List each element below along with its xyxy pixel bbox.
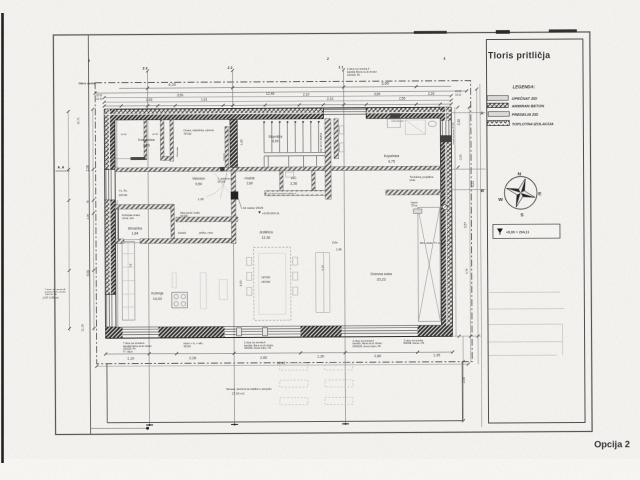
elevation box (493, 224, 560, 238)
door label steklena stena (218, 178, 233, 184)
right dim ticks (456, 88, 480, 423)
vetrolov door swing (207, 171, 228, 198)
bottom note blob 3 (244, 341, 274, 350)
right axis line corridor (452, 168, 486, 170)
table size labels (261, 276, 271, 284)
outer frame (53, 32, 592, 435)
corridor top wall (115, 166, 441, 172)
scanner edge black bar (1, 13, 4, 463)
right wall pier (440, 135, 451, 142)
tv wardrobe with X (418, 207, 441, 321)
bottom wall hatch block 3 (417, 325, 452, 336)
right dimension chain 5 (480, 84, 482, 427)
lobby partition 2 (170, 120, 174, 162)
section line top ticks (146, 68, 345, 72)
bottom wall window 1 (123, 329, 159, 335)
sofa (316, 253, 330, 313)
terrace label (226, 387, 272, 396)
shramba door (124, 240, 140, 243)
right dimension chain 2 (462, 336, 464, 420)
top dimension ticks (94, 85, 469, 108)
fireplace (413, 209, 422, 214)
right dimension chain 1 (455, 107, 456, 336)
corridor step wall (171, 204, 175, 243)
right axis line A (451, 112, 485, 114)
kitchen faint furniture (172, 273, 227, 309)
left wall edges (104, 109, 116, 338)
top wall insulation right part (366, 107, 451, 112)
bath duct wall (334, 119, 339, 159)
kotlovnica radiator (131, 157, 146, 160)
bottom note blob 4 (353, 339, 383, 348)
right wall edges (440, 107, 452, 336)
roof outline dashed (95, 81, 472, 364)
top-right note text (347, 68, 377, 77)
bottom wall corner block (105, 327, 122, 338)
stairs (264, 121, 325, 168)
section line 2-2 (227, 66, 238, 426)
top dimension line row 1 (119, 80, 451, 88)
bottom dimension ticks (104, 351, 454, 356)
right axis line B (452, 189, 486, 191)
left dim ticks (67, 108, 96, 330)
bottom note blob 5 (404, 339, 425, 345)
left wall upper segment (104, 109, 109, 169)
bottom wall hatch block 2 (300, 326, 341, 337)
bath partition (325, 119, 331, 199)
bottom wall hatch block 1 (158, 327, 224, 338)
right wall door (442, 121, 449, 136)
ogasilo partition (225, 127, 229, 168)
pergola posts (280, 363, 353, 405)
left note blob (45, 288, 66, 296)
dining table (247, 247, 298, 320)
top wall lintel blob (390, 112, 400, 118)
room label shramba (128, 227, 142, 236)
bottom dim numbers (127, 353, 440, 360)
corridor bottom wall left (115, 204, 174, 209)
label ys rc (119, 189, 128, 198)
top dimension line row 3 (104, 92, 451, 98)
bottom wall line extension (453, 335, 482, 337)
right dimension chain 3 (469, 107, 470, 361)
hodnik wall segment 1 (115, 239, 124, 244)
room label stopnisce (268, 135, 282, 144)
bottom dimension line (106, 352, 453, 354)
terrace right edge (461, 362, 463, 421)
fold line (88, 35, 90, 434)
room label jedilnica (259, 230, 273, 240)
frame smudge 3 (549, 29, 577, 32)
room label omara (183, 129, 214, 136)
legend row 1 opečnat zid (487, 96, 537, 102)
room label kuhinja (151, 291, 163, 301)
right dimension chain 4 (477, 89, 479, 364)
stair wall (230, 119, 238, 167)
wall strip separators (104, 107, 452, 338)
label miza pomik (180, 213, 200, 218)
left lower reference line (91, 427, 150, 430)
left wall window 2 (105, 294, 116, 327)
legend row 3 predelni zid (488, 112, 538, 118)
chimney circle (442, 205, 447, 210)
label kamin (411, 201, 418, 207)
wc fixture (286, 172, 294, 177)
label zofa (332, 240, 342, 251)
bath bottom wall (386, 190, 441, 195)
terrace bottom edge (107, 421, 462, 423)
room label hodnik (245, 176, 255, 185)
room label kotlovnica (138, 138, 154, 148)
stove (172, 292, 188, 308)
bottom wall terrace door (225, 328, 301, 336)
compass rose (498, 171, 542, 218)
left dimension chain (68, 111, 69, 331)
title block box (486, 39, 585, 423)
left wall mid segment (105, 200, 110, 294)
wc bottom wall (265, 190, 330, 195)
bath fixtures (339, 119, 436, 152)
ghost table lines in title block (488, 292, 564, 355)
top wall brick right part (366, 112, 451, 119)
top wall brick left part (104, 113, 323, 120)
left wall inner face (117, 120, 118, 327)
room label kopalnica (384, 154, 399, 164)
top dimension line row 2 (95, 90, 467, 101)
glass door block (220, 167, 225, 171)
corridor bottom wall mid (176, 217, 238, 222)
partition below glass wall (231, 171, 236, 244)
bottom wall window 2 (342, 328, 418, 334)
lobby partition foot (161, 156, 174, 160)
wc partition right (312, 171, 316, 191)
left wall window 1 (105, 169, 116, 200)
corridor floor line (115, 170, 440, 172)
legend row 2 armiran beton (487, 103, 544, 109)
top wall window (323, 108, 366, 119)
kitchen counter (122, 242, 135, 321)
label tus kabina (410, 176, 434, 182)
right wall upper segment (440, 107, 446, 121)
top wall edges (104, 107, 451, 120)
bottom note blob 1 (123, 342, 152, 354)
top wall insulation left part (104, 108, 323, 114)
section line 3-3 (142, 66, 153, 426)
right wall lower segment (440, 142, 447, 336)
top dimension line row 5 (104, 104, 451, 106)
left dim line 2 (93, 109, 94, 331)
hodnik wall segment 2 (140, 238, 232, 243)
room label vetrolov (192, 177, 205, 187)
room label dnevna soba (371, 272, 392, 282)
bottom wall edges (105, 325, 452, 338)
level mark jedilnica (258, 211, 280, 215)
wc partition left (280, 171, 284, 191)
section line 1-1 (338, 65, 349, 425)
column A4 (231, 191, 239, 199)
kotlovnica partition (144, 120, 147, 160)
overall dim 12,42 (95, 360, 470, 368)
label kuhinjska oprema (122, 214, 141, 220)
frame smudge 2 (496, 30, 510, 34)
frame smudge 1 (414, 31, 447, 34)
top dimension line row 4 (104, 96, 451, 102)
shramba stub line (117, 207, 119, 240)
bottom note blob 2 (184, 342, 204, 348)
lobby partition 1 (160, 120, 164, 157)
room label wc (290, 176, 297, 186)
legend row 4 toplotna izolacija (487, 120, 554, 126)
terrace left edge (106, 364, 108, 423)
